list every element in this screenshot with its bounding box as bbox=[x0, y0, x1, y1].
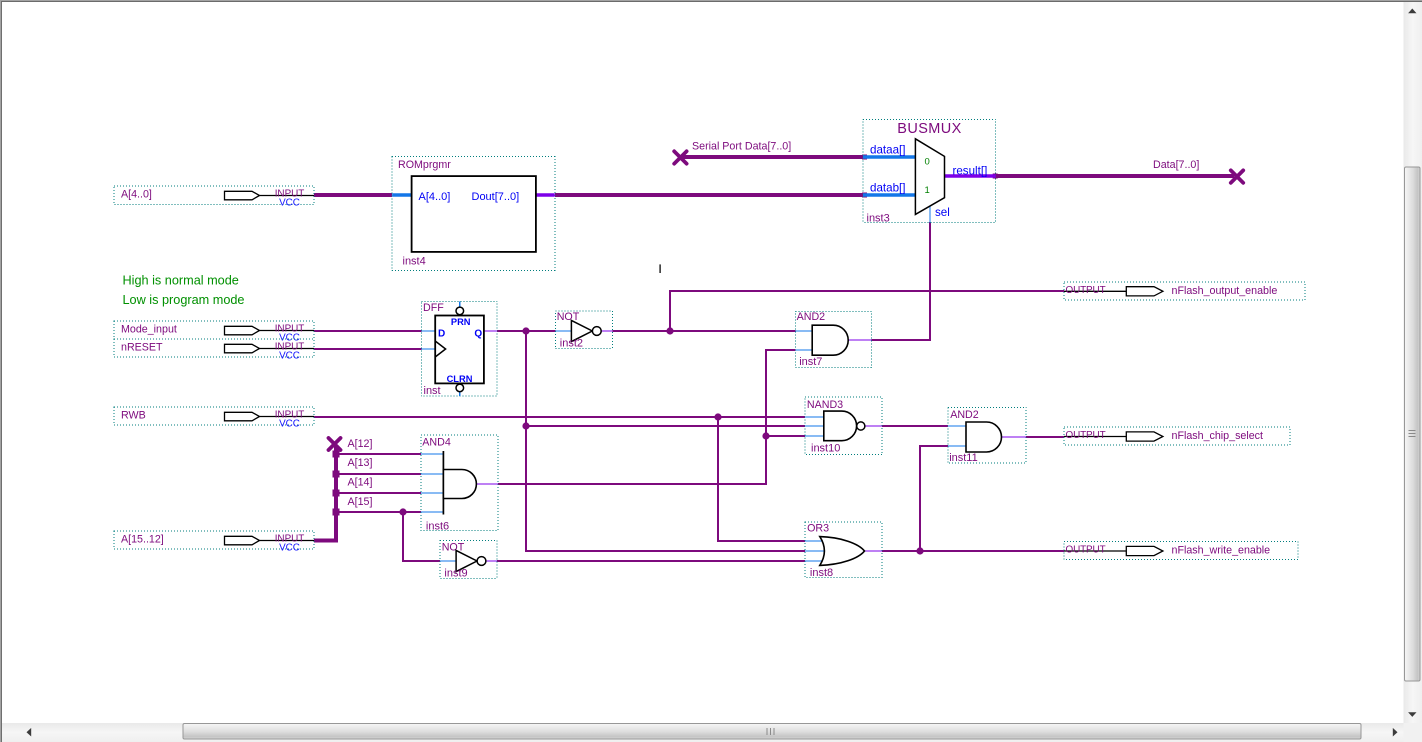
node BUSMUX result connection square bbox=[993, 174, 998, 179]
junction RWB branch bbox=[714, 413, 721, 420]
svg-text:inst10: inst10 bbox=[811, 442, 840, 454]
svg-text:BUSMUX: BUSMUX bbox=[897, 121, 961, 137]
node BUSMUX dataa connection square bbox=[862, 155, 867, 160]
svg-text:nFlash_output_enable: nFlash_output_enable bbox=[1172, 285, 1278, 297]
vertical scrollbar thumb grip bbox=[1409, 431, 1416, 437]
svg-text:VCC: VCC bbox=[279, 542, 300, 553]
svg-text:NAND3: NAND3 bbox=[807, 399, 843, 411]
bus tap A15 bbox=[333, 509, 340, 516]
svg-text:A[14]: A[14] bbox=[348, 477, 373, 489]
output pin nFlash_chip_select bbox=[1064, 427, 1290, 445]
input pin A[4..0] bbox=[114, 186, 314, 208]
wire DFF Q to NOT inst2 input bbox=[497, 330, 555, 332]
svg-text:ROMprgmr: ROMprgmr bbox=[398, 159, 451, 171]
window frame left border bbox=[0, 1, 1, 742]
svg-text:OUTPUT: OUTPUT bbox=[1066, 285, 1106, 296]
svg-text:Serial Port Data[7..0]: Serial Port Data[7..0] bbox=[692, 141, 791, 153]
svg-text:1: 1 bbox=[925, 185, 930, 196]
node BUSMUX datab connection square bbox=[862, 193, 867, 198]
svg-text:VCC: VCC bbox=[279, 418, 300, 429]
svg-text:NOT: NOT bbox=[442, 542, 465, 554]
gate OR3 inst8 bbox=[805, 522, 882, 579]
DFF clock triangle bbox=[435, 341, 445, 357]
wire node Q branch vertical x=526 down to OR3 middle bbox=[526, 330, 805, 551]
BUSMUX pin stub sel bbox=[929, 206, 931, 223]
svg-text:dataa[]: dataa[] bbox=[870, 144, 905, 157]
window frame top border bbox=[0, 0, 1422, 1]
svg-text:inst6: inst6 bbox=[426, 520, 449, 532]
input pin A[15..12] bbox=[114, 531, 314, 553]
bus tap A13 bbox=[333, 471, 340, 478]
X marker A[15..12] bus top end bbox=[329, 438, 341, 450]
svg-text:VCC: VCC bbox=[279, 197, 300, 208]
wire A15 tap to AND4 input4 bbox=[336, 511, 421, 513]
bus A[4..0] INPUT to ROMprgmr bbox=[314, 193, 392, 197]
wire NOT inst9 output to OR3 bottom input bbox=[497, 560, 805, 562]
output pin nFlash_output_enable bbox=[1064, 282, 1305, 300]
svg-text:Low is program mode: Low is program mode bbox=[123, 293, 245, 307]
wire branch to NAND3 bottom input bbox=[766, 435, 805, 437]
input pin Mode_input bbox=[114, 321, 314, 343]
wire branch up to nFlash_output_enable bbox=[670, 291, 1064, 332]
svg-text:High is normal mode: High is normal mode bbox=[123, 274, 239, 288]
svg-text:Q: Q bbox=[474, 329, 482, 340]
svg-text:0: 0 bbox=[925, 157, 930, 168]
svg-text:A[15]: A[15] bbox=[348, 496, 373, 508]
wire RWB branch down to OR3 top input bbox=[718, 416, 805, 541]
BUSMUX pin stub datab[] bbox=[863, 193, 915, 197]
wire AND2 inst7 output to BUSMUX sel bbox=[871, 222, 930, 340]
flip-flop DFF inst bbox=[421, 301, 497, 396]
text caret mark bbox=[659, 264, 660, 273]
svg-text:inst11: inst11 bbox=[949, 452, 978, 464]
horizontal scrollbar thumb grip bbox=[767, 728, 774, 735]
junction DFF Q branch bbox=[522, 327, 529, 334]
vertical scrollbar track bbox=[1404, 2, 1422, 723]
svg-text:A[4..0]: A[4..0] bbox=[121, 189, 152, 201]
horizontal scrollbar left arrow bbox=[27, 728, 32, 737]
svg-text:PRN: PRN bbox=[451, 317, 471, 327]
svg-text:nRESET: nRESET bbox=[121, 341, 163, 353]
mux BUSMUX inst3 bbox=[863, 119, 996, 224]
vertical scrollbar down arrow bbox=[1408, 712, 1416, 717]
ROMprgmr body bbox=[412, 176, 536, 252]
svg-text:Mode_input: Mode_input bbox=[121, 323, 177, 335]
block ROMprgmr inst4 bbox=[392, 157, 555, 271]
input pin nRESET bbox=[114, 339, 314, 361]
svg-text:inst8: inst8 bbox=[810, 567, 833, 579]
svg-text:AND2: AND2 bbox=[950, 409, 979, 421]
gate AND2 inst7 bbox=[795, 311, 871, 368]
svg-text:A[4..0]: A[4..0] bbox=[419, 191, 451, 203]
bus A[15..12] INPUT vertical riser bbox=[314, 445, 336, 541]
svg-text:OUTPUT: OUTPUT bbox=[1066, 545, 1106, 556]
svg-text:A[12]: A[12] bbox=[348, 438, 373, 450]
gate NOT inst2 bbox=[555, 311, 612, 350]
wire branch up to AND2 inst11 lower input bbox=[920, 446, 948, 550]
BUSMUX pin stub result[] bbox=[945, 174, 996, 178]
svg-text:inst: inst bbox=[424, 385, 441, 397]
horizontal scrollbar thumb bbox=[183, 724, 1361, 740]
svg-text:nFlash_chip_select: nFlash_chip_select bbox=[1172, 430, 1264, 442]
wire RWB to NAND3 top input bbox=[314, 416, 805, 418]
svg-text:inst3: inst3 bbox=[867, 213, 890, 225]
bus Serial Port Data to BUSMUX dataa bbox=[683, 155, 863, 159]
junction output-enable branch bbox=[666, 327, 673, 334]
X marker Data[7..0] unconnected end bbox=[1231, 170, 1243, 182]
horizontal scrollbar track bbox=[2, 723, 1404, 742]
junction NAND3 middle branch bbox=[522, 422, 529, 429]
gate NOT inst9 bbox=[440, 541, 497, 580]
svg-text:inst4: inst4 bbox=[403, 255, 426, 267]
horizontal scrollbar right arrow bbox=[1393, 728, 1398, 737]
junction A15 to NOT inst9 branch bbox=[399, 508, 406, 515]
svg-text:sel: sel bbox=[935, 206, 950, 219]
wire OR3 output to nFlash_write_enable bbox=[882, 550, 1064, 552]
svg-text:datab[]: datab[] bbox=[870, 182, 905, 195]
svg-text:DFF: DFF bbox=[423, 302, 444, 314]
wire NOT inst2 output to AND2 inst7 input bbox=[612, 330, 795, 332]
svg-text:D: D bbox=[438, 329, 445, 340]
bus tap A12 bbox=[333, 451, 340, 458]
gate AND4 inst6 bbox=[421, 435, 498, 532]
vertical scrollbar up arrow bbox=[1408, 9, 1416, 14]
DFF PRN bubble bbox=[456, 307, 464, 315]
svg-text:CLRN: CLRN bbox=[447, 374, 473, 384]
junction write-enable branch bbox=[916, 547, 923, 554]
svg-text:NOT: NOT bbox=[557, 311, 580, 323]
wire nRESET to DFF clock bbox=[314, 348, 421, 350]
BUSMUX pin stub dataa[] bbox=[863, 155, 915, 159]
wire Q branch to NAND3 middle input bbox=[526, 425, 805, 427]
svg-text:inst7: inst7 bbox=[799, 356, 822, 368]
svg-text:Dout[7..0]: Dout[7..0] bbox=[472, 191, 520, 203]
svg-text:nFlash_write_enable: nFlash_write_enable bbox=[1172, 545, 1271, 557]
BUSMUX mux body bbox=[915, 139, 944, 215]
output pin nFlash_write_enable bbox=[1064, 542, 1298, 560]
wire A13 tap to AND4 input2 bbox=[336, 473, 421, 475]
svg-text:result[]: result[] bbox=[953, 165, 988, 178]
svg-text:A[13]: A[13] bbox=[348, 457, 373, 469]
bus BUSMUX result to Data[7..0] bbox=[996, 174, 1234, 178]
input pin RWB bbox=[114, 407, 314, 429]
svg-text:RWB: RWB bbox=[121, 409, 146, 421]
X marker Serial Port Data unconnected end bbox=[674, 151, 686, 163]
svg-text:VCC: VCC bbox=[279, 350, 300, 361]
gate AND2 inst11 bbox=[948, 407, 1026, 464]
svg-text:OR3: OR3 bbox=[807, 523, 829, 535]
bus ROMprgmr Dout to BUSMUX datab bbox=[555, 193, 863, 197]
scrollbar corner bbox=[1404, 723, 1422, 742]
svg-text:AND2: AND2 bbox=[797, 311, 826, 323]
svg-text:Data[7..0]: Data[7..0] bbox=[1153, 159, 1199, 171]
svg-text:inst9: inst9 bbox=[444, 568, 467, 580]
wire AND4 output up to AND2 inst7 lower input bbox=[498, 350, 795, 484]
wire NAND3 output to AND2 inst11 top input bbox=[882, 425, 948, 427]
bus tap A14 bbox=[333, 490, 340, 497]
svg-text:OUTPUT: OUTPUT bbox=[1066, 430, 1106, 441]
wire A14 tap to AND4 input3 bbox=[336, 492, 421, 494]
DFF CLRN bubble bbox=[456, 384, 464, 392]
vertical scrollbar thumb bbox=[1405, 167, 1421, 681]
svg-text:inst2: inst2 bbox=[560, 338, 583, 350]
wire Mode_input to DFF D bbox=[314, 330, 421, 332]
wire A12 tap to AND4 input1 bbox=[336, 453, 421, 455]
svg-text:A[15..12]: A[15..12] bbox=[121, 533, 164, 545]
gate NAND3 inst10 bbox=[805, 397, 882, 455]
wire AND2 inst11 output to nFlash_chip_select bbox=[1026, 436, 1064, 438]
junction NAND3 bottom branch bbox=[762, 432, 769, 439]
svg-text:AND4: AND4 bbox=[422, 437, 451, 449]
wire A15 branch down to NOT inst9 input bbox=[403, 511, 440, 561]
